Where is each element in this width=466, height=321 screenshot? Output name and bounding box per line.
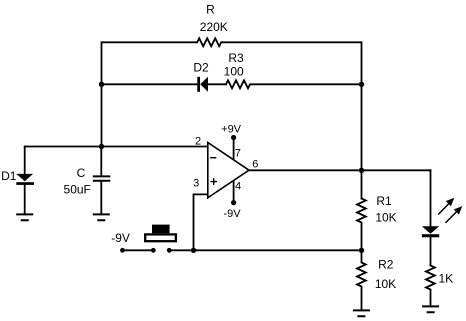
svg-text:C: C [77,166,86,180]
svg-text:100: 100 [224,64,244,78]
svg-text:R2: R2 [378,258,394,272]
svg-text:D2: D2 [193,61,209,75]
svg-text:4: 4 [235,181,241,193]
svg-text:2: 2 [195,136,201,148]
svg-text:-9V: -9V [223,208,241,220]
svg-text:R3: R3 [228,51,244,65]
svg-text:R1: R1 [376,194,392,208]
svg-text:3: 3 [193,178,199,190]
svg-text:6: 6 [252,159,258,171]
svg-text:-9V: -9V [111,231,130,245]
svg-text:+9V: +9V [221,124,242,136]
svg-text:50uF: 50uF [64,182,91,196]
svg-text:R: R [206,3,215,17]
svg-text:10K: 10K [375,210,396,224]
svg-text:1K: 1K [438,272,453,286]
svg-text:220K: 220K [200,20,228,34]
svg-text:D1: D1 [1,169,17,183]
svg-text:7: 7 [235,147,241,159]
svg-text:10K: 10K [375,277,396,291]
